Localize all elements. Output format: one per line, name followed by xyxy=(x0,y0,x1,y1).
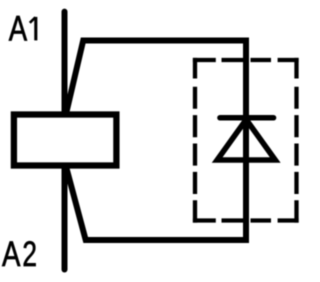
svg-text:2: 2 xyxy=(22,235,37,274)
svg-text:A: A xyxy=(9,9,28,48)
svg-text:A: A xyxy=(2,235,21,274)
